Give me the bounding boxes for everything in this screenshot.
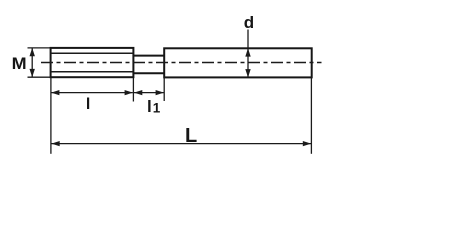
thread root line bottom xyxy=(51,71,134,73)
threaded section outline xyxy=(51,48,134,77)
l1 extension line (right, below shoulder) xyxy=(163,77,165,101)
l1 arrowhead left xyxy=(134,90,142,95)
M dimension line xyxy=(31,49,33,77)
svg-text:L: L xyxy=(185,125,197,147)
svg-text:d: d xyxy=(244,13,254,32)
reduced shank bottom line xyxy=(133,72,164,74)
L extension line left xyxy=(50,77,52,154)
L arrowhead right xyxy=(303,141,311,146)
M arrowhead up xyxy=(30,48,35,56)
l arrowhead right xyxy=(125,90,133,95)
centerline (dash-dot axis) xyxy=(41,62,322,64)
l arrowhead left xyxy=(51,90,59,95)
L arrowhead left xyxy=(51,141,59,146)
M extension line top xyxy=(28,47,51,49)
d arrowhead up xyxy=(245,48,250,56)
d arrowhead down xyxy=(245,69,250,77)
thread root line top xyxy=(51,52,134,54)
M extension line bottom xyxy=(28,76,51,78)
plain cylinder outline xyxy=(164,48,312,77)
l extension line (right, below thread end) xyxy=(132,77,134,101)
d leader line xyxy=(247,30,249,49)
d dimension line xyxy=(247,49,249,77)
svg-text:M: M xyxy=(12,54,27,73)
l1 dimension line xyxy=(134,92,164,94)
M arrowhead down xyxy=(30,69,35,77)
l1 arrowhead right xyxy=(156,90,164,95)
l dimension line xyxy=(51,92,133,94)
svg-text:l: l xyxy=(86,96,90,113)
reduced shank top line xyxy=(133,55,164,57)
L extension line right xyxy=(310,77,312,153)
L dimension line xyxy=(52,143,312,145)
svg-text:l1: l1 xyxy=(147,97,161,116)
